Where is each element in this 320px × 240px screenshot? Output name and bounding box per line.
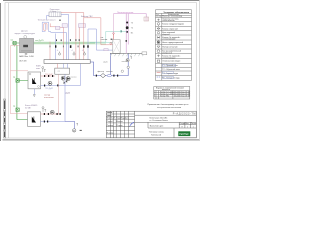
svg-text:Обозначение общее: Обозначение общее bbox=[162, 61, 180, 63]
boiler photo box bbox=[24, 36, 27, 39]
valves below band (black) bbox=[55, 45, 89, 48]
svg-text:Иванов: Иванов bbox=[117, 121, 123, 123]
svg-text:насос: насос bbox=[122, 61, 127, 63]
svg-text:Бак расширительный: Бак расширительный bbox=[162, 50, 181, 53]
svg-text:50 кВт: 50 кВт bbox=[25, 107, 31, 109]
svg-text:1: 1 bbox=[193, 126, 194, 128]
svg-text:электроприводом: электроприводом bbox=[162, 39, 175, 41]
left stamp column bbox=[3, 99, 5, 138]
svg-text:Т21 Ду32: Т21 Ду32 bbox=[45, 88, 53, 90]
svg-text:Клапан воздухоотводчик: Клапан воздухоотводчик bbox=[162, 23, 184, 25]
svg-text:ст. Установка Бакси: ст. Установка Бакси bbox=[150, 120, 168, 122]
svg-text:1: 1 bbox=[187, 126, 188, 128]
svg-text:лист: лист bbox=[36, 68, 40, 70]
svg-text:фильтр: фильтр bbox=[98, 70, 104, 73]
boiler2 pipes bbox=[41, 114, 75, 122]
radiator pipes bbox=[47, 13, 84, 42]
svg-text:Условные обозначения: Условные обозначения bbox=[164, 11, 190, 14]
svg-text:счетчик: счетчик bbox=[101, 39, 108, 41]
gas vertical to boilers bbox=[16, 45, 18, 120]
company logo bbox=[178, 131, 190, 136]
DHW circulation pump below floor bbox=[126, 59, 129, 62]
svg-text:Разраб.: Разраб. bbox=[107, 121, 114, 123]
cold water from manifold right bbox=[90, 53, 128, 75]
hot water risers magenta bbox=[126, 14, 128, 54]
svg-text:Петров: Петров bbox=[117, 125, 123, 127]
drawing frame bbox=[5, 3, 197, 138]
svg-text:т3: т3 bbox=[82, 50, 84, 52]
svg-text:счетчик: счетчик bbox=[106, 71, 113, 73]
svg-text:Н.контр.: Н.контр. bbox=[107, 132, 114, 134]
svg-text:Лист: Лист bbox=[185, 123, 189, 125]
svg-text:3: 3 bbox=[154, 96, 155, 98]
svg-text:Бойлер ГВС: Бойлер ГВС bbox=[81, 15, 93, 18]
svg-text:Котельной: Котельной bbox=[151, 134, 161, 137]
svg-text:Теплый пол зона 1: Теплый пол зона 1 bbox=[38, 19, 57, 22]
svg-text:Котельная 25,6 кВт.: Котельная 25,6 кВт. bbox=[150, 117, 169, 119]
svg-text:наружн. температуры: наружн. температуры bbox=[14, 33, 35, 35]
thermometers under band bbox=[58, 52, 85, 56]
makeup pump M bottom bbox=[74, 122, 76, 129]
safety group above boiler1 bbox=[42, 67, 46, 72]
red thermo drop to heater bbox=[113, 34, 115, 40]
risers from serpentine area bbox=[50, 25, 79, 60]
svg-text:Датчик: Датчик bbox=[21, 31, 28, 33]
boxed designations in legend bbox=[163, 64, 176, 78]
svg-text:Контур ГВС: Контур ГВС bbox=[160, 96, 170, 98]
svg-text:Дата: Дата bbox=[125, 118, 129, 120]
boiler2 safety group bbox=[42, 107, 46, 112]
legend symbols bbox=[156, 16, 161, 18]
boiler 1 symbol bbox=[28, 66, 41, 89]
ticks above band bbox=[56, 39, 80, 41]
svg-text:газ Ду25: газ Ду25 bbox=[35, 40, 44, 42]
cold water teal line bbox=[90, 30, 128, 42]
svg-text:насосы: насосы bbox=[71, 76, 78, 78]
manifold bbox=[44, 60, 90, 64]
svg-text:Провер.: Провер. bbox=[107, 125, 114, 127]
floor line with hatch bbox=[110, 52, 146, 54]
svg-text:Фильтр сетчатый: Фильтр сетчатый bbox=[162, 46, 177, 49]
svg-text:BAXI Slim 1.490: BAXI Slim 1.490 bbox=[19, 55, 34, 58]
svg-text:газ: газ bbox=[11, 40, 14, 42]
svg-text:Т1,Т2: Т1,Т2 bbox=[156, 16, 161, 18]
svg-text:Т3 - Горячая вода: Т3 - Горячая вода bbox=[162, 73, 179, 75]
symbols on risers bbox=[126, 22, 129, 42]
svg-text:48,7 кВт: 48,7 кВт bbox=[19, 61, 27, 63]
drain under boiler1 bbox=[33, 89, 35, 95]
boiler 1 pipes bbox=[41, 64, 81, 86]
gas inlet valve bbox=[13, 41, 16, 44]
DHW loop red outer bbox=[84, 13, 113, 60]
svg-text:Клапан 3х ходовой с: Клапан 3х ходовой с bbox=[162, 36, 180, 39]
svg-text:Ду15: Ду15 bbox=[104, 61, 108, 63]
svg-text:Выполнил для: Выполнил для bbox=[150, 126, 163, 128]
svg-text:Клапан обратный: Клапан обратный bbox=[162, 27, 177, 30]
gas highlight band bbox=[34, 42, 106, 45]
boiler 2 bbox=[25, 105, 41, 127]
svg-text:Примечание: балансировку систе: Примечание: балансировку системы пр-ть bbox=[148, 104, 189, 106]
svg-text:электроприводом: электроприводом bbox=[162, 57, 175, 59]
floor heating serpentine bbox=[42, 22, 66, 41]
svg-text:Клапан 3х ходовой с: Клапан 3х ходовой с bbox=[162, 55, 180, 58]
left thin red loop bbox=[11, 46, 29, 114]
hydraulic separator + pumps bbox=[55, 68, 70, 74]
svg-text:Насос циркуляционный: Насос циркуляционный bbox=[162, 41, 183, 44]
svg-text:Магистр. теплопровод: Магистр. теплопровод bbox=[162, 15, 183, 17]
page outer edges bbox=[1, 0, 201, 141]
left stamp vertical text marks bbox=[4, 101, 5, 138]
radiator top-left bbox=[49, 9, 61, 17]
svg-text:Листов: Листов bbox=[191, 123, 197, 125]
svg-text:Тепловая схема: Тепловая схема bbox=[149, 132, 165, 134]
svg-text:2 этаж: 2 этаж bbox=[50, 11, 56, 13]
svg-text:т2: т2 bbox=[71, 50, 73, 52]
small label boxes on risers bbox=[62, 24, 67, 28]
svg-text:настроечными клапанами: настроечными клапанами bbox=[157, 107, 181, 109]
water heater box bbox=[113, 40, 120, 54]
svg-text:отопления: отопления bbox=[44, 97, 54, 99]
svg-text:теплоснабжения: теплоснабжения bbox=[162, 20, 174, 22]
svg-text:т1: т1 bbox=[57, 50, 59, 52]
svg-text:Закрытая система: Закрытая система bbox=[162, 19, 179, 21]
gas valve symbols bbox=[16, 79, 19, 112]
svg-text:ГЕОТЕК: ГЕОТЕК bbox=[179, 133, 189, 136]
svg-text:Т2 - Обратный тепл.: Т2 - Обратный тепл. bbox=[162, 68, 180, 71]
svg-text:Полотенцесушит.: Полотенцесушит. bbox=[117, 12, 134, 14]
svg-text:45-1000 л/час 23 кВт: 45-1000 л/час 23 кВт bbox=[174, 96, 190, 98]
svg-text:Кран шаровой: Кран шаровой bbox=[162, 31, 175, 34]
svg-text:М: М bbox=[73, 131, 75, 133]
